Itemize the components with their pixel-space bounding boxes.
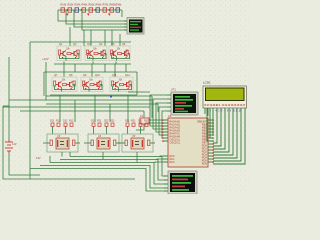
wire bus lower 1: [46, 95, 152, 97]
wire row A-B v2b: [104, 64, 106, 72]
wire row B bottom bus: [50, 94, 137, 96]
wire block2 down: [102, 152, 104, 160]
resistor R12 pull: [129, 81, 131, 86]
transistor Q10: [94, 82, 100, 88]
optocoupler U5: [131, 138, 144, 149]
svg-text:R31: R31: [131, 120, 136, 123]
oscilloscope SCOPE1: [127, 18, 144, 35]
wires LCD power: [205, 108, 208, 116]
pin names LCD1: [204, 105, 246, 107]
svg-text:R90k: R90k: [116, 4, 123, 7]
wire bottom bus 3: [50, 163, 166, 185]
wire X1 to U1 a: [149, 119, 163, 121]
resistor R3 pull: [87, 50, 89, 55]
wire stage4 emitters: [55, 85, 75, 90]
diode arrows top chain: [66, 14, 111, 16]
wire block3 stub b: [140, 127, 142, 135]
battery BAT1: [5, 139, 13, 153]
crystal X1: [140, 118, 149, 124]
svg-text:LCD1: LCD1: [203, 81, 211, 85]
resistor R2: [68, 8, 72, 12]
svg-text:U1: U1: [168, 114, 172, 118]
subcircuit boundary block 2: [88, 134, 119, 152]
wire bus lower 2: [9, 99, 152, 101]
diode D24: [139, 123, 142, 126]
resistor R10 pull: [99, 81, 101, 86]
wire right link 2: [157, 104, 159, 112]
wire block3 out: [150, 142, 155, 144]
pin stubs U1 right: [208, 120, 213, 162]
resistor R6 pull: [126, 50, 128, 55]
node specks stage Q5: [113, 57, 127, 58]
svg-text:VT1: VT1: [171, 88, 176, 92]
wire U1 RC2 out: [155, 162, 163, 163]
diode D15: [57, 123, 60, 126]
resistor R1 pull: [59, 50, 61, 55]
wire mid right h: [128, 91, 150, 93]
svg-text:Q10: Q10: [95, 74, 100, 77]
wire block2 stub b: [106, 127, 108, 135]
resistor R78 base: [63, 84, 67, 86]
resistor R34 base: [94, 53, 98, 55]
wire row B feed drop: [43, 72, 45, 96]
virtual terminal VT1: [171, 92, 198, 115]
wire bus drop c: [94, 95, 96, 122]
wire X1 to U1 b: [149, 122, 163, 124]
resistor R7 pull: [54, 81, 56, 86]
optocoupler U3: [56, 138, 69, 149]
wire top bus 2: [66, 10, 126, 24]
wire block3 in: [118, 142, 125, 144]
svg-text:R12: R12: [69, 120, 74, 123]
LED display DISP2: [168, 171, 197, 194]
transistor Q6: [122, 51, 128, 57]
pin numbers LCD1: [207, 110, 242, 112]
wire stage1 emitters: [60, 54, 80, 59]
resistor R8 pull: [73, 81, 75, 86]
svg-text:D12: D12: [63, 120, 68, 123]
wire drop to stage1b: [83, 30, 85, 46]
microcontroller U1: [168, 118, 208, 167]
svg-text:R70k: R70k: [103, 4, 110, 7]
svg-text:Q11: Q11: [112, 74, 117, 77]
svg-text:Q12: Q12: [125, 74, 130, 77]
labels parts above block 3: [125, 120, 149, 123]
wire block1 stub b: [65, 127, 67, 135]
wire drop to stage1: [69, 27, 71, 46]
wire stage6 emitters: [113, 85, 132, 90]
wire bottom bus 5: [30, 169, 166, 192]
svg-text:D32: D32: [138, 120, 143, 123]
wire bus lower 4: [3, 106, 150, 108]
wire VT1 pin2 route: [153, 99, 167, 129]
svg-text:R40k: R40k: [82, 4, 89, 7]
wire bus drop a: [59, 95, 61, 122]
stage box Q7/Q8: [52, 77, 77, 92]
wire drop to stage3: [111, 30, 113, 46]
wire block1 stub a: [52, 127, 54, 135]
wire stage3 emitters: [112, 54, 130, 59]
wire U1 RC0 out: [160, 156, 163, 157]
resistor R32: [91, 140, 93, 146]
pin names U1 lower left: [170, 155, 176, 164]
wire bus drop d: [109, 104, 111, 122]
wire row A drop1: [63, 62, 65, 65]
resistor R11 pull: [112, 81, 114, 86]
pin stubs VT1: [167, 95, 171, 111]
resistor R2 pull: [77, 50, 79, 55]
wire right link 1: [151, 96, 153, 118]
diode D6: [96, 8, 100, 12]
wire VT1 pin4 route: [159, 107, 167, 135]
net label blue: [110, 96, 112, 98]
wire stage2 out: [92, 57, 94, 61]
wire drop to stage2b: [104, 30, 106, 46]
wire block3 stub a: [127, 127, 129, 135]
diode D23: [132, 123, 135, 126]
subcircuit boundary block 3: [122, 134, 153, 152]
stage box Q11/Q12: [110, 77, 133, 92]
resistor R7: [103, 8, 107, 12]
transistor Q2: [71, 51, 77, 57]
wire rail left B lower: [9, 153, 40, 175]
wire VT1 pin5 route: [162, 111, 167, 138]
subcircuit boundary block 1: [47, 134, 78, 152]
diode D9: [116, 8, 120, 12]
resistor R8: [110, 8, 114, 12]
diode D17: [70, 123, 73, 126]
wire row A-B v1: [63, 64, 65, 77]
transistor Q12: [124, 82, 130, 88]
wire block1 out: [75, 142, 80, 144]
wire row A drop3: [115, 62, 117, 65]
wire row A-B v3b: [125, 64, 127, 72]
svg-text:R20k: R20k: [68, 4, 75, 7]
resistor R12 base: [67, 53, 71, 55]
resistor R31: [50, 140, 52, 146]
diode D14: [51, 123, 54, 126]
resistor R56 base: [118, 53, 122, 55]
resistor R33: [125, 140, 127, 146]
labels parts above block 2: [91, 120, 115, 123]
stage box Q5/Q6: [109, 46, 130, 61]
wire stage1 out: [65, 57, 67, 61]
wire bus drop b: [74, 100, 76, 122]
labels top chain values: [61, 4, 123, 7]
wire row A drop2: [92, 62, 94, 65]
transistor Q1: [60, 51, 66, 57]
wire VT1 pin1 route: [150, 95, 167, 126]
svg-text:12V: 12V: [36, 156, 41, 160]
svg-text:RD6: RD6: [202, 162, 208, 165]
diode D22: [126, 123, 129, 126]
wire bottom bus 2: [60, 160, 166, 181]
optocoupler U4: [97, 138, 110, 149]
resistor R42: [114, 140, 116, 146]
wire row A bottom bus: [54, 63, 131, 65]
svg-text:D21: D21: [91, 120, 96, 123]
transistor Q5: [111, 51, 117, 57]
wire stage5 emitters: [84, 85, 103, 90]
svg-text:R50k: R50k: [89, 4, 96, 7]
resistor R43: [148, 140, 150, 146]
pin stubs U1 left: [163, 120, 168, 162]
wire stage3 out: [116, 57, 118, 61]
LCD display LCD1: [203, 86, 247, 108]
svg-text:OSC2/CL: OSC2/CL: [170, 141, 181, 144]
transistor Q8: [67, 82, 73, 88]
node specks stage Q11: [115, 88, 129, 89]
wire bus drop f: [143, 111, 145, 118]
svg-text:R11: R11: [56, 120, 61, 123]
transistor Q3: [87, 51, 93, 57]
svg-text:D11: D11: [50, 120, 55, 123]
wire bus drop e: [127, 95, 129, 122]
wire rail B right drop: [136, 72, 138, 95]
pin end markers U1: [162, 119, 214, 162]
resistor R1: [61, 8, 65, 12]
wire drop to stage3b: [119, 34, 121, 46]
wires LCD control: [207, 108, 213, 141]
resistor R41: [73, 140, 75, 146]
diode D3: [75, 8, 79, 12]
transistor Q9: [83, 82, 89, 88]
wire X1 gnd: [136, 124, 144, 130]
diode D21: [111, 123, 114, 126]
wire row B feed rail: [44, 71, 137, 73]
wire rail left B: [8, 57, 10, 139]
svg-text:R32: R32: [144, 120, 149, 123]
stage box Q1/Q2: [57, 46, 81, 61]
wire bus lower 5: [20, 110, 144, 112]
svg-text:RC2: RC2: [170, 161, 176, 164]
resistor R4 pull: [103, 50, 105, 55]
pin stubs SCOPE1: [124, 21, 127, 30]
pin stubs DISP2: [164, 176, 168, 191]
resistor R5: [89, 8, 93, 12]
wire stage2 emitters: [88, 54, 107, 59]
svg-text:+12V: +12V: [42, 57, 49, 61]
wire stage6 out: [118, 88, 120, 92]
svg-text:R10k: R10k: [61, 4, 68, 7]
diode D19: [98, 123, 101, 126]
wire bottom bus 1: [70, 157, 166, 177]
pin names U1 left: [170, 120, 181, 144]
diode D20: [105, 123, 108, 126]
stage box Q3/Q4: [85, 46, 107, 61]
node specks stage Q3: [89, 57, 103, 58]
wire top bus 1: [58, 10, 126, 21]
wire block2 in: [84, 142, 91, 144]
wire top chain rail: [58, 9, 122, 11]
diode D16: [64, 123, 67, 126]
wire top bus 4: [82, 10, 126, 30]
node specks stage Q7: [58, 88, 72, 89]
node specks stage Q1: [62, 57, 76, 58]
wire block1 in: [43, 142, 50, 144]
wire top bus 3: [74, 10, 126, 27]
wire bus lower 3: [46, 103, 158, 105]
wire row A-B v1b: [74, 64, 76, 72]
diode D18: [92, 123, 95, 126]
wire row A-B v2: [91, 64, 93, 77]
resistor R5 pull: [111, 50, 113, 55]
stage box Q9/Q10: [81, 77, 103, 92]
wire block2 out: [116, 142, 121, 144]
diode D25: [145, 123, 148, 126]
wire bus left join: [49, 156, 51, 163]
svg-text:R60k: R60k: [96, 4, 103, 7]
transistor Q7: [56, 82, 62, 88]
wire rail left A: [29, 42, 31, 179]
resistor R910 base: [90, 84, 94, 86]
wire stage5 out: [88, 88, 90, 92]
transistor Q11: [113, 82, 119, 88]
svg-text:D22: D22: [104, 120, 109, 123]
wire rail far left: [3, 106, 135, 179]
wire U1 RC1 out: [157, 159, 163, 160]
wire left link: [3, 105, 9, 107]
wire chain right drop: [121, 10, 123, 17]
wire row A-B v3: [114, 64, 116, 77]
node specks stage Q9: [85, 88, 99, 89]
wire bottom bus 4: [40, 166, 166, 189]
wire bus left drop1: [69, 152, 71, 157]
labels parts above block 1: [50, 120, 74, 123]
wire stage4 out: [61, 88, 63, 92]
wire block3 down: [136, 152, 138, 163]
resistor R9 pull: [83, 81, 85, 86]
svg-text:R22: R22: [110, 120, 115, 123]
resistor R4: [82, 8, 86, 12]
wire power tap: [45, 62, 47, 100]
node junction dots top chain: [67, 9, 110, 10]
wire drop to stage2: [90, 30, 92, 46]
resistor R1112 base: [120, 84, 124, 86]
svg-text:D31: D31: [125, 120, 130, 123]
svg-text:R21: R21: [97, 120, 102, 123]
svg-text:12V: 12V: [12, 142, 17, 146]
pin names U1 right: [197, 120, 207, 165]
svg-text:R30k: R30k: [75, 4, 82, 7]
wires LCD data bus: [213, 108, 245, 164]
wire VT1 pin3 route: [156, 103, 167, 132]
wire row A feed rail: [30, 41, 131, 43]
wire block1 down: [61, 152, 63, 157]
transistor Q4: [98, 51, 104, 57]
wire block2 stub a: [93, 127, 95, 135]
